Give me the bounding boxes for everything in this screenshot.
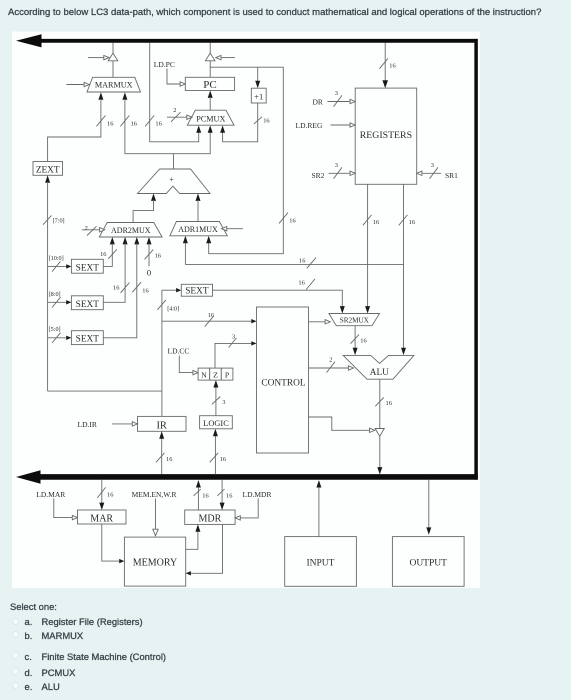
svg-text:MAR: MAR (90, 513, 113, 524)
register MDR (185, 510, 235, 524)
wire CONTROL to ALU select with label 2 (309, 357, 354, 373)
select stub ADR2MUX with label 2 (82, 225, 105, 236)
wire adder output to MARMUX and PCMUX (120, 92, 212, 153)
wire ZEXT to MARMUX input (48, 92, 114, 161)
wire GateALU to bus (377, 436, 382, 474)
sign extend SEXT [5:0] (71, 331, 103, 345)
svg-text:16: 16 (389, 62, 395, 69)
mux MARMUX (87, 77, 141, 92)
svg-text:OUTPUT: OUTPUT (409, 558, 447, 568)
stub DR (313, 90, 356, 107)
tri-state gate GateMARMUX (108, 53, 118, 61)
wire constant 0 to ADR2MUX (145, 237, 161, 278)
svg-text:ALU: ALU (370, 368, 389, 378)
svg-text:+: + (169, 175, 174, 184)
svg-text:[4:0]: [4:0] (167, 305, 179, 312)
wire MDR to MEMORY (186, 524, 223, 575)
svg-text:CONTROL: CONTROL (261, 378, 306, 388)
stub SR2 (312, 162, 356, 180)
svg-text:2: 2 (85, 225, 88, 232)
wire IR trunk left to ZEXT (43, 175, 65, 391)
bus bottom segment (16, 470, 478, 484)
svg-text:3: 3 (431, 162, 434, 169)
svg-text:3: 3 (335, 90, 338, 97)
incrementer +1 (251, 88, 266, 103)
wire SR1 horizontal (185, 258, 403, 269)
mux PCMUX (187, 110, 234, 125)
stub LD.REG (296, 121, 356, 130)
wire LD.MDR to MDR (235, 499, 258, 521)
svg-text:16: 16 (360, 337, 366, 344)
wire MDR output to bus (194, 480, 209, 510)
condition codes NZP (198, 368, 233, 380)
svg-text:+1: +1 (254, 92, 263, 102)
svg-text:[7:0]: [7:0] (53, 218, 65, 225)
bus right segment (474, 39, 478, 480)
io INPUT (285, 537, 357, 587)
svg-text:MEMORY: MEMORY (133, 557, 177, 568)
diagram background (12, 32, 480, 589)
wire ADR2MUX output to adder (133, 194, 156, 223)
tri-state gate GateALU (375, 429, 384, 437)
svg-text:SEXT: SEXT (76, 263, 100, 273)
svg-text:LOGIC: LOGIC (203, 419, 229, 428)
wire CONTROL to GateALU (309, 417, 375, 433)
svg-text:INPUT: INPUT (307, 558, 335, 568)
wire SR2MUX output to ALU (351, 326, 367, 355)
svg-text:3: 3 (222, 399, 225, 406)
wire SEXT [8:0] output to ADR2MUX (103, 237, 129, 302)
svg-text:P: P (225, 371, 230, 380)
wire bus riser to IR (156, 431, 172, 474)
svg-text:16: 16 (226, 493, 232, 500)
wire MEM.EN to MEMORY open arrow (153, 499, 158, 536)
wire LOGIC to NZP with label 3 (212, 380, 226, 416)
wire SR1 out of REGISTERS to ALU (399, 184, 415, 355)
logic block LOGIC (200, 416, 233, 429)
wire SEXT [5:0] output to ADR2MUX (103, 237, 148, 338)
select stub MARMUX (66, 82, 89, 86)
wire PCMUX output to PC (208, 91, 213, 111)
io OUTPUT (392, 537, 464, 587)
wire bus to GateMARMUX (112, 43, 114, 54)
svg-text:16: 16 (131, 120, 137, 127)
sign extend SEXT [8:0] (71, 296, 103, 310)
wire INPUT to bus (316, 480, 321, 536)
wire bus drop to MAR (97, 480, 113, 510)
alu ALU (343, 355, 414, 379)
svg-text:16: 16 (298, 279, 304, 286)
select stub PCMUX with label 2 (167, 107, 192, 122)
adder (138, 169, 211, 194)
svg-text:ZEXT: ZEXT (36, 165, 60, 175)
memory MEMORY (124, 537, 185, 586)
mux ADR2MUX (99, 223, 162, 238)
svg-text:3: 3 (335, 162, 338, 169)
register PC (185, 77, 234, 91)
gate control stub GateMARMUX (88, 55, 109, 59)
svg-text:SR2: SR2 (312, 171, 325, 180)
register MAR (78, 510, 127, 524)
svg-text:16: 16 (386, 400, 392, 407)
svg-text:MEM.EN,W.R: MEM.EN,W.R (132, 490, 177, 499)
svg-text:REGISTERS: REGISTERS (360, 130, 412, 141)
wire IR output to CONTROL (162, 312, 257, 327)
wire IR trunk (48, 290, 180, 416)
register file REGISTERS (355, 88, 417, 184)
svg-text:[8:0]: [8:0] (49, 291, 61, 298)
svg-text:3: 3 (232, 333, 235, 340)
svg-text:16: 16 (100, 251, 106, 258)
svg-text:[10:0]: [10:0] (49, 255, 64, 262)
svg-text:LD.MDR: LD.MDR (243, 490, 272, 499)
svg-text:ADR1MUX: ADR1MUX (178, 225, 218, 234)
svg-text:SEXT: SEXT (185, 287, 209, 297)
svg-text:16: 16 (220, 456, 226, 463)
mux SR2MUX (329, 314, 380, 326)
wire SR2 out of REGISTERS to SR2MUX (363, 184, 379, 313)
svg-text:16: 16 (263, 118, 269, 125)
svg-text:IR: IR (156, 420, 167, 431)
tri-state gate GatePC (205, 53, 215, 61)
svg-text:Z: Z (213, 371, 218, 380)
svg-text:16: 16 (155, 252, 161, 259)
svg-text:2: 2 (329, 357, 332, 364)
svg-text:16: 16 (208, 312, 214, 319)
mux ADR1MUX (170, 222, 227, 236)
svg-text:16: 16 (142, 287, 148, 294)
svg-text:16: 16 (202, 493, 208, 500)
svg-text:LD.MAR: LD.MAR (36, 490, 65, 499)
wire SR1 line to ADR1MUX left input (183, 236, 188, 265)
sign extend SEXT [10:0] (71, 259, 103, 273)
wire bus drop to MDR (217, 480, 232, 510)
wire SEXT [4:0] output to SR2MUX (213, 279, 345, 314)
svg-text:MARMUX: MARMUX (95, 81, 133, 90)
wire MARMUX output to gate (112, 61, 114, 78)
gate control stub GatePC (216, 55, 235, 59)
wire bus riser to LOGIC (210, 429, 226, 475)
svg-text:16: 16 (373, 219, 379, 226)
wire CONTROL to SR2MUX select (309, 320, 331, 324)
select stub ADR1MUX (222, 227, 243, 231)
svg-text:ADR2MUX: ADR2MUX (111, 226, 151, 235)
control unit CONTROL (257, 307, 309, 453)
svg-text:16: 16 (409, 219, 415, 226)
svg-text:LD.PC: LD.PC (154, 60, 175, 69)
wire PC to gate (209, 61, 211, 78)
svg-text:2: 2 (173, 107, 176, 114)
stub SR1 (417, 162, 458, 180)
svg-text:PCMUX: PCMUX (196, 115, 225, 124)
svg-text:DR: DR (313, 98, 323, 107)
wire LD.PC to PC (167, 69, 185, 87)
svg-text:N: N (201, 371, 207, 380)
wire trunk to SEXT [5:0] (48, 326, 72, 343)
wire ADR1MUX output to adder (196, 194, 201, 222)
svg-text:SR2MUX: SR2MUX (340, 317, 370, 325)
svg-text:16: 16 (289, 217, 295, 224)
svg-text:LD.IR: LD.IR (78, 420, 97, 429)
wire LD.CC to NZP (179, 356, 198, 375)
wire +1 output to PCMUX right input (220, 103, 269, 142)
svg-text:16: 16 (107, 492, 113, 499)
sign extend SEXT [4:0] (181, 284, 212, 296)
svg-text:[5:0]: [5:0] (49, 326, 61, 333)
svg-text:16: 16 (155, 120, 161, 127)
wire trunk to SEXT [10:0] (48, 255, 72, 272)
wire IR to SEXT [4:0] (162, 288, 181, 292)
svg-text:16: 16 (113, 285, 119, 292)
wire bus to OUTPUT (426, 480, 431, 535)
wire LD.IR to IR (112, 422, 138, 426)
svg-text:LD.CC: LD.CC (168, 347, 190, 356)
instruction register IR (138, 416, 187, 431)
svg-text:16: 16 (166, 456, 172, 463)
svg-text:MDR: MDR (199, 513, 222, 524)
wire bus drop into REGISTERS (380, 43, 396, 89)
wire down into +1 (255, 67, 260, 88)
svg-text:SEXT: SEXT (76, 300, 100, 310)
wire PC top branch to +1 and ADR1MUX (206, 67, 295, 254)
wire bus to GatePC (209, 43, 211, 54)
wire NZP to CONTROL with label 3 (215, 333, 257, 368)
wire SEXT [10:0] output to ADR2MUX (100, 237, 117, 266)
wire ALU output to gate (375, 379, 392, 428)
wire LD.MAR to MAR (54, 499, 78, 520)
svg-text:SEXT: SEXT (76, 335, 100, 345)
zero extend ZEXT (33, 162, 63, 176)
wire trunk to SEXT [8:0] (48, 291, 72, 308)
svg-text:PC: PC (203, 79, 216, 91)
wire bus drop to PCMUX left input (145, 43, 201, 142)
svg-text:0: 0 (147, 268, 152, 278)
svg-text:LD.REG: LD.REG (296, 121, 323, 130)
wire MAR to MEMORY (102, 524, 125, 563)
svg-text:16: 16 (299, 258, 305, 265)
svg-text:16: 16 (107, 120, 113, 127)
bus top segment (16, 34, 477, 47)
wire adder output up (173, 154, 175, 169)
svg-text:SR1: SR1 (445, 171, 458, 180)
wire MEMORY to MDR (186, 524, 201, 549)
